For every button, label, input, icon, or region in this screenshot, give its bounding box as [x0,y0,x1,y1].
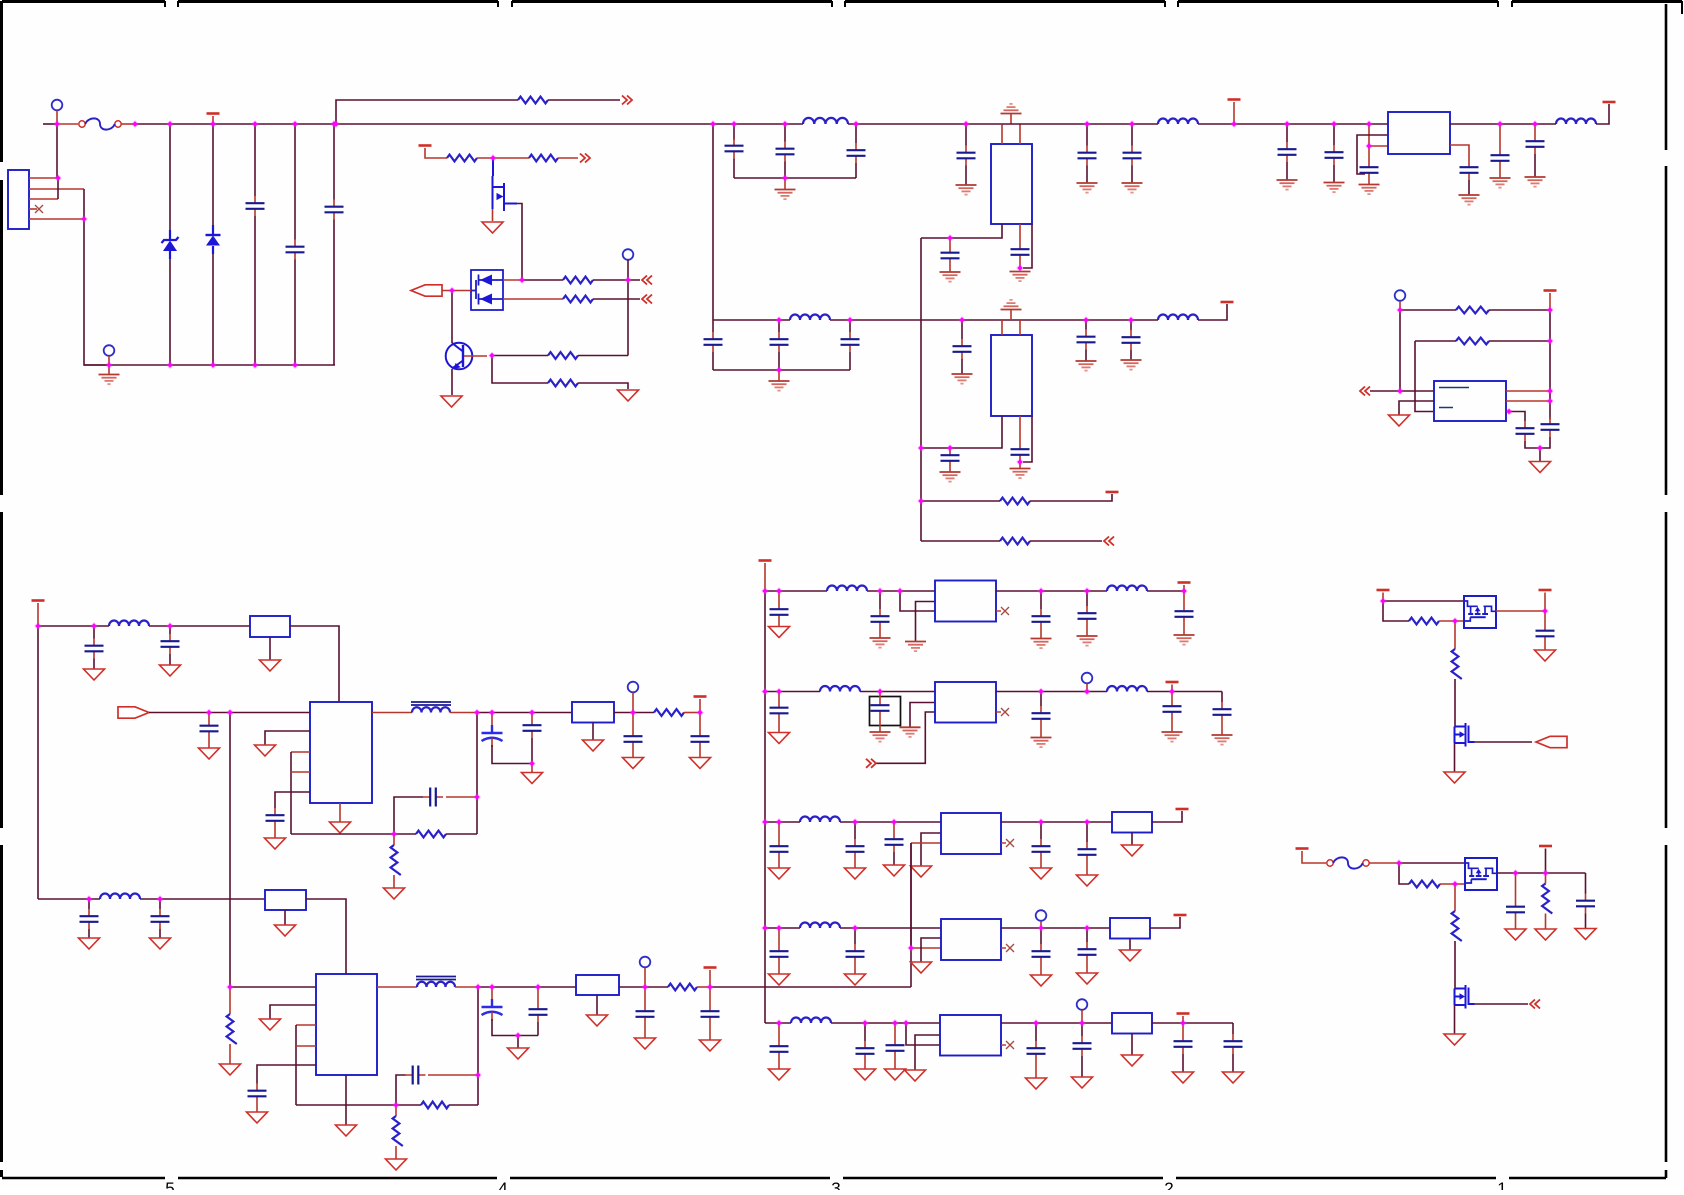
sheet border left [0,1,3,1177]
wire power stem [1549,293,1551,310]
ground [623,758,644,769]
ground [1072,1077,1093,1088]
junction [1180,587,1188,595]
polarized capacitor C30 [482,722,503,747]
connector J2 [8,170,29,229]
wire [1131,124,1133,146]
ground [700,1040,721,1051]
junction [1127,316,1135,324]
no-connect pin4 [35,205,43,213]
wire [1333,165,1335,182]
resistor R23 [1452,911,1462,941]
junction [846,316,854,324]
inductor L11 [1107,586,1147,591]
wire [1415,341,1434,412]
ground [255,745,276,756]
wire [333,124,335,200]
resistor R16 [393,1116,403,1146]
wire [627,280,629,356]
wire [491,987,493,996]
wire pin1 [29,177,58,179]
wire [644,987,646,1004]
wire U1 out [921,224,1002,238]
ground [1121,360,1142,370]
ground [1173,1072,1194,1083]
capacitor C9 [1011,242,1030,262]
wire [1001,842,1006,844]
wire [712,352,714,370]
wire [1183,585,1185,591]
wire [428,1074,478,1076]
junction [156,895,164,903]
wire [893,852,895,865]
wire row1 EN [900,591,935,611]
ground [911,962,932,973]
wire [879,692,881,699]
capacitor C70 [1541,417,1560,437]
junction [291,361,299,369]
junction [1083,120,1091,128]
sheet border top [2,0,1682,3]
wire [1399,863,1409,884]
terminal J9 [1077,999,1088,1010]
wire [778,721,780,733]
wire [1035,1061,1037,1078]
wire [1454,941,1456,989]
capacitor C63 [856,1041,875,1061]
capacitor C44 [871,609,890,629]
junction [761,688,769,696]
power [1106,491,1119,494]
wire bus 2 [713,319,1158,321]
junction [291,120,299,128]
junction [781,174,789,182]
capacitor C33 [691,729,710,749]
wire U4 ss [275,792,310,808]
ground [885,1069,906,1080]
ground [900,727,921,737]
junction [917,444,925,452]
power [1221,301,1234,304]
junction [891,1019,899,1027]
ground [384,888,405,899]
capacitor C57 [1078,842,1097,862]
transistor Q2 NPN [446,343,473,370]
wire filter return 2 [713,369,850,371]
wire [393,875,395,888]
ground [1031,738,1052,748]
wire [1539,448,1541,461]
wire [910,843,912,987]
zener diode D1 [162,230,179,259]
junction [330,120,338,128]
junction [624,276,632,284]
resistor R15 [421,1102,449,1109]
ground [769,974,790,985]
ground [1535,650,1556,661]
ground [1444,1034,1465,1045]
wire [492,745,532,764]
ground [940,472,961,482]
wire [1086,166,1088,183]
wire [1086,928,1088,942]
capacitor C68 [1224,1034,1243,1054]
junction [251,120,259,128]
wire [1370,390,1434,392]
wire branch [336,100,518,124]
ground [1010,469,1031,479]
wire Q2 base [464,355,487,357]
wire [1415,340,1456,342]
wire [333,220,335,366]
wire [517,1036,519,1048]
wire [455,986,478,988]
wire [88,899,90,909]
wire row4 gnd [921,938,941,962]
wire U11 gnd [1399,401,1434,415]
wire [699,749,701,757]
resistor R20 [1452,649,1462,679]
wire [1540,437,1550,448]
wire [1544,593,1546,612]
wire [57,178,59,199]
wire [879,718,881,732]
ground [1077,875,1098,886]
wire [254,124,256,196]
junction [1037,924,1045,932]
wire [578,383,628,389]
ground [199,748,220,759]
wire [596,995,598,1015]
junction [1128,120,1136,128]
wire filter return [734,177,856,179]
junction [1330,120,1338,128]
wire [1544,611,1546,624]
wire [854,928,856,944]
junction [775,366,783,374]
capacitor C14 [1360,160,1379,180]
ground [855,1069,876,1080]
wire [965,124,967,146]
junction [775,818,783,826]
wire [548,99,620,101]
wire [1198,304,1227,320]
no-connect [1001,708,1009,716]
junction [1396,387,1404,395]
transistor Q1 NMOS [493,158,518,211]
wire [284,910,286,925]
resistor R6 [548,352,578,359]
ferrite bead FB5 [1112,812,1152,833]
junction [1037,688,1045,696]
capacitor C47 [1175,604,1194,624]
capacitor C21 [953,339,972,359]
wire [169,124,171,230]
wire ground rail [84,364,335,366]
junction [473,793,481,801]
capacitor C62 [770,1039,789,1059]
wire Q1 source [492,209,494,221]
no-connect [1006,944,1014,952]
wire [784,178,786,189]
wire [644,968,646,988]
wire [778,964,780,974]
wire [1232,1023,1234,1034]
wire power stem [37,603,39,626]
wire [294,124,296,240]
connector << [1104,537,1114,546]
junction [226,983,234,991]
ground [870,638,891,648]
wire [1010,310,1012,321]
capacitor C49 [871,698,890,718]
sheet border bottom [2,1177,1666,1179]
regulator U1 [991,144,1032,224]
ground [99,375,120,385]
junction [896,587,904,595]
wire [854,822,856,839]
wire [1515,920,1517,929]
ground [587,1015,608,1026]
connector >> [580,154,590,163]
capacitor C10 [1078,146,1097,166]
resistor R10 [654,709,684,716]
wire [778,370,780,381]
junction [54,174,62,182]
capacitor C28 [200,719,219,739]
junction [1083,587,1091,595]
resistor R2 [447,155,477,162]
wire [1040,859,1042,868]
ground [79,938,100,949]
wire [558,157,578,159]
ground [1277,180,1298,190]
capacitor C64 [886,1038,905,1058]
junction [730,120,738,128]
inductor L2 [1158,119,1198,124]
wire [644,1024,646,1038]
wire [614,712,654,714]
wire buck2 output [478,986,576,988]
wire row3 input [765,821,941,823]
wire [503,298,563,300]
capacitor C71 [1536,624,1555,644]
junction [1396,306,1404,314]
ground [1162,732,1183,742]
junction [761,818,769,826]
capacitor C26 [85,639,104,659]
wire [712,320,714,332]
wire [1399,301,1401,310]
wire [1182,1023,1184,1034]
wire [854,964,856,974]
svg-text:1: 1 [1497,1179,1506,1190]
junction [1546,306,1554,314]
wire row2 EN [877,712,936,763]
wire J1 stem [56,111,58,125]
LDO U9 [941,919,1001,960]
wire Q6 source [1454,1005,1456,1034]
junction [1505,408,1513,416]
wire [345,1075,347,1125]
TVS diode D2 [206,225,221,254]
capacitor C4 [725,139,744,159]
wire [1525,441,1540,448]
capacitor C19 [770,332,789,352]
wire [1023,416,1032,462]
capacitor C35 [80,909,99,929]
wire [446,796,477,798]
ground [1076,361,1097,371]
wire [1383,600,1464,602]
wire feedback [476,713,478,835]
ground [150,938,171,949]
capacitor C48 [770,701,789,721]
wire [1506,412,1525,422]
wire [1001,1044,1006,1046]
dual diode D3 [471,270,503,310]
wire [627,260,629,280]
wire [1198,123,1388,125]
ground [905,642,926,652]
resistor R5 [563,296,593,303]
junction [1037,587,1045,595]
wire [619,986,668,988]
wire U5 fb [296,1024,316,1026]
wire [1333,124,1335,145]
junction [90,622,98,630]
wire [1131,166,1133,183]
wire [1383,601,1409,621]
fuse F1 [79,118,121,129]
wire [1454,884,1456,911]
port EN1 [1536,736,1567,747]
load switch MOSFET Q3 [1464,596,1496,628]
power [694,695,707,698]
wire [208,739,210,748]
no-connect [1006,1041,1014,1049]
ground [1575,929,1596,940]
junction [226,709,234,717]
wire [1019,224,1021,242]
power [1174,914,1187,917]
wire [1086,591,1088,606]
wire row2 input [765,691,935,693]
wire [1489,309,1550,311]
wire [1468,180,1470,195]
port PWR_IN [411,285,442,296]
capacitor C43 [770,602,789,622]
wire [43,123,57,125]
wire [921,500,1000,502]
junction [390,830,398,838]
resistor R4 [563,277,593,284]
resistor R19 [1409,618,1439,625]
U11 label marks [1439,388,1469,408]
junction [1083,688,1091,696]
wire Q2 collector [451,291,453,344]
wire [1183,624,1185,635]
terminal J3 [104,345,115,356]
terminal J10 [1395,290,1406,301]
wire row1 gnd [916,602,936,642]
junction [1531,120,1539,128]
buck converter U5 [316,974,377,1075]
transistor Q6 [1455,985,1475,1009]
power [1539,845,1552,848]
wire [1450,123,1556,125]
wire [855,124,857,143]
junction [205,709,213,717]
junction [1083,818,1091,826]
junction [1451,617,1459,625]
wire [1040,629,1042,638]
capacitor C36 [151,909,170,929]
wire [1182,1054,1184,1072]
junction [775,1019,783,1027]
wire U4 gnd [265,731,310,745]
wire [492,1019,538,1036]
junction [534,983,542,991]
junction [473,709,481,717]
wire [1221,692,1223,703]
junction [1082,316,1090,324]
wire [949,266,951,272]
junction [946,444,954,452]
junction [775,316,783,324]
LDO U10 [940,1015,1001,1056]
svg-text:5: 5 [165,1179,174,1190]
capacitor C66 [1073,1036,1092,1056]
terminal J4 [623,249,634,260]
capacitor C51 [1163,699,1182,719]
wire power stem [1233,102,1235,124]
ground [845,974,866,985]
junction [629,709,637,717]
junction [1032,1019,1040,1027]
ground [1505,929,1526,940]
power [1296,847,1309,850]
ground [1389,415,1410,426]
ground [1001,300,1022,310]
capacitor C46 [1078,606,1097,626]
wire power stem [212,116,214,124]
inductor L4 [790,315,830,321]
capacitor C37 [248,1084,267,1104]
ground [1444,772,1465,783]
capacitor C31 [523,718,542,738]
power [419,144,432,147]
inductor L8 [100,894,140,900]
capacitor C40 [636,1004,655,1024]
ground [884,865,905,876]
capacitor C50 [1032,706,1051,726]
capacitor C24 [941,448,960,468]
wire [894,1058,896,1069]
wire [306,899,346,974]
wire [93,626,95,639]
capacitor C22 [1077,330,1096,350]
wire row5 gnd [915,1035,940,1070]
capacitor C72 [1506,900,1525,920]
capacitor C53 [770,839,789,859]
wire [1147,691,1222,693]
wire pin3 [29,198,58,200]
wire row5 input [765,1022,940,1024]
junction [761,924,769,932]
junction [775,924,783,932]
wire [269,637,271,660]
